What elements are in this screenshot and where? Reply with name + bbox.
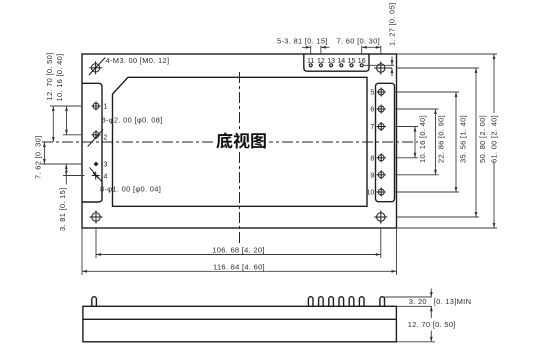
pin 6 bbox=[377, 105, 386, 114]
svg-text:61. 00 [2. 40]: 61. 00 [2. 40] bbox=[490, 115, 499, 163]
svg-text:6: 6 bbox=[370, 107, 374, 114]
horizontal centerline bbox=[42, 72, 418, 244]
svg-text:4: 4 bbox=[104, 174, 108, 181]
mounting hole bottom-right bbox=[374, 210, 387, 223]
svg-text:12. 70 [0. 50]: 12. 70 [0. 50] bbox=[408, 320, 456, 329]
svg-text:35. 56 [1. 40]: 35. 56 [1. 40] bbox=[459, 115, 468, 163]
svg-text:10. 16 [0. 40]: 10. 16 [0. 40] bbox=[418, 115, 427, 163]
right pin strip bbox=[376, 83, 395, 201]
svg-text:16: 16 bbox=[358, 58, 366, 65]
ext line pin1 left bbox=[50, 105, 83, 107]
inner pcb outline with chamfer bbox=[113, 77, 368, 206]
svg-text:8-φ1. 00 [φ0. 04]: 8-φ1. 00 [φ0. 04] bbox=[100, 185, 161, 194]
dim line 7.62 left bbox=[43, 142, 45, 164]
svg-text:5: 5 bbox=[370, 90, 374, 97]
side view dimensions bbox=[385, 289, 436, 342]
mounting hole top-right bbox=[374, 61, 392, 74]
top pin strip bbox=[304, 54, 369, 71]
pin 9 bbox=[377, 170, 386, 179]
left pin strip bbox=[82, 83, 102, 202]
1.27 dimension bbox=[363, 57, 394, 77]
mounting hole bottom-left bbox=[89, 210, 102, 223]
title 底视图 bbox=[216, 132, 265, 148]
svg-text:12: 12 bbox=[317, 58, 325, 65]
vertical centerline bbox=[239, 72, 241, 244]
pin 10 bbox=[377, 188, 386, 197]
ext line pin4 left bbox=[63, 175, 85, 177]
ext line pin3 left bbox=[41, 163, 83, 165]
svg-text:3. 81 [0. 15]: 3. 81 [0. 15] bbox=[58, 187, 67, 231]
ext lines 7.60 bbox=[361, 46, 363, 54]
svg-text:22. 86 [0. 90]: 22. 86 [0. 90] bbox=[437, 115, 446, 163]
svg-text:14: 14 bbox=[337, 58, 345, 65]
svg-text:106. 68 [4. 20]: 106. 68 [4. 20] bbox=[212, 245, 264, 254]
svg-text:4-M3. 00 [M0. 12]: 4-M3. 00 [M0. 12] bbox=[106, 56, 170, 65]
svg-text:8: 8 bbox=[370, 155, 374, 162]
svg-text:[0. 13]MIN: [0. 13]MIN bbox=[434, 297, 472, 306]
svg-text:7. 62 [0. 30]: 7. 62 [0. 30] bbox=[34, 135, 43, 179]
svg-text:2: 2 bbox=[104, 135, 108, 142]
side view pins bbox=[92, 297, 97, 307]
mounting hole top-left bbox=[89, 58, 106, 76]
svg-text:50. 80 [2. 00]: 50. 80 [2. 00] bbox=[478, 115, 487, 163]
svg-text:1: 1 bbox=[104, 104, 108, 111]
pins 11-16 bbox=[309, 64, 363, 67]
dim 3.81 arrow segs bbox=[65, 164, 67, 176]
svg-text:13: 13 bbox=[327, 58, 335, 65]
svg-text:7. 60 [0. 30]: 7. 60 [0. 30] bbox=[337, 37, 381, 46]
svg-text:12. 70 [0. 50]: 12. 70 [0. 50] bbox=[45, 53, 54, 101]
dim line 12.70 left bbox=[52, 106, 54, 142]
side view body bbox=[83, 297, 397, 342]
pin 5 bbox=[377, 88, 386, 97]
outer case outline (bottom view) bbox=[82, 54, 397, 228]
svg-text:15: 15 bbox=[348, 58, 356, 65]
svg-text:9: 9 bbox=[370, 172, 374, 179]
svg-text:7: 7 bbox=[370, 124, 374, 131]
pin 2 bbox=[88, 129, 103, 146]
right side dimensions bbox=[395, 54, 498, 228]
svg-text:3. 20: 3. 20 bbox=[409, 297, 427, 306]
pin 7 bbox=[377, 122, 386, 131]
svg-text:116. 84 [4. 60]: 116. 84 [4. 60] bbox=[213, 262, 265, 271]
svg-text:11: 11 bbox=[307, 58, 314, 65]
ext line pin2 left bbox=[63, 134, 83, 136]
top dimensions bbox=[302, 46, 381, 54]
ext lines 5-3.81 bbox=[310, 46, 312, 54]
pin 3 bbox=[94, 162, 99, 167]
pin 8 bbox=[377, 153, 386, 162]
svg-text:10. 16 [0. 40]: 10. 16 [0. 40] bbox=[55, 54, 64, 102]
dim line 10.16 left bbox=[66, 106, 68, 135]
svg-text:1. 27 [0. 05]: 1. 27 [0. 05] bbox=[388, 2, 397, 46]
pin 1 bbox=[92, 102, 101, 111]
pin 4 bbox=[90, 167, 102, 181]
bottom dimensions bbox=[82, 228, 397, 275]
svg-text:10: 10 bbox=[367, 190, 375, 197]
white mask for title bbox=[213, 129, 269, 151]
svg-text:3: 3 bbox=[104, 162, 108, 169]
svg-text:8-φ2. 00 [φ0. 08]: 8-φ2. 00 [φ0. 08] bbox=[102, 116, 163, 125]
svg-text:5-3. 81 [0. 15]: 5-3. 81 [0. 15] bbox=[277, 37, 328, 46]
